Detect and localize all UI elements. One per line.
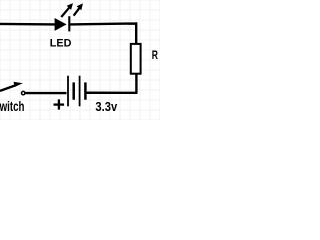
battery BT1 positive plate left (long thin): [67, 76, 69, 107]
resistor R1 body: [131, 44, 141, 74]
svg-text:LED: LED: [50, 38, 72, 50]
LED light arrow 1: [61, 3, 73, 17]
svg-text:Switch: Switch: [0, 98, 24, 114]
switch lever arrowhead: [14, 82, 23, 87]
battery BT1 positive plate inner (long thin): [79, 76, 81, 107]
wire battery to switch contact: [26, 92, 67, 94]
battery BT1 negative plate inner (short thick): [72, 82, 75, 99]
LED D1 cathode bar: [68, 16, 70, 31]
svg-text:3.3v: 3.3v: [95, 99, 117, 114]
svg-text:R: R: [152, 48, 158, 62]
switch contact node circle: [22, 91, 25, 94]
wire resistor bottom down: [135, 74, 137, 93]
wire top left segment: [0, 23, 55, 26]
LED D1 triangle: [55, 18, 67, 31]
LED light arrow 2: [74, 3, 83, 15]
wire top right segment with corner down to resistor: [70, 22, 136, 43]
wire bottom right to battery: [86, 92, 138, 94]
battery plus sign: [54, 99, 65, 109]
battery BT1 negative plate right (short thick): [84, 82, 87, 99]
switch lever arm: [0, 85, 16, 91]
